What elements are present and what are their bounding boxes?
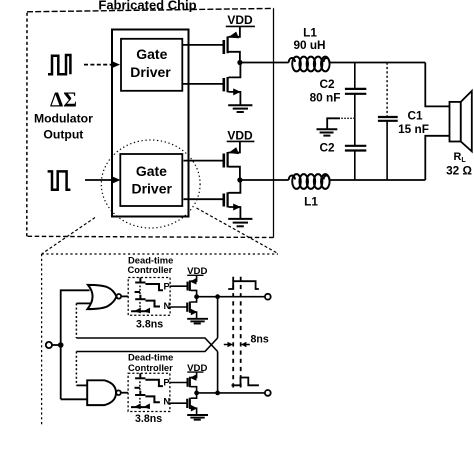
svg-text:8ns: 8ns xyxy=(251,334,269,346)
wire: feedback line 1 (to NOR B) with crossover diagonal xyxy=(76,338,217,352)
svg-text:Controller: Controller xyxy=(128,362,173,373)
wire: feedback line 2 (to NAND A) with crossover diagonal xyxy=(76,338,217,352)
wire: feedback from node D down to crossover xyxy=(217,297,219,338)
DT2 interior delay elements xyxy=(131,373,163,409)
inductor L1 (bottom) xyxy=(289,174,330,189)
svg-text:N: N xyxy=(164,300,171,311)
gate driver U1 xyxy=(121,39,182,91)
svg-text:P: P xyxy=(163,376,169,387)
node B: half-bridge 2 output xyxy=(237,177,288,182)
svg-text:Gate: Gate xyxy=(136,46,167,62)
label: Delta-Sigma Modulator Output xyxy=(34,88,93,142)
wire: right vertical to speaker top xyxy=(425,63,449,107)
svg-text:P: P xyxy=(164,281,170,292)
svg-text:80 nF: 80 nF xyxy=(310,91,341,105)
delta-sigma output waveform 2 (square wave) xyxy=(48,171,71,189)
transistor M6 (NMOS detail 1) xyxy=(187,297,197,319)
dead-time controller DT1 box xyxy=(128,278,170,316)
svg-text:32 Ω: 32 Ω xyxy=(446,164,472,178)
wire: input bus vertical xyxy=(61,290,90,399)
svg-text:Driver: Driver xyxy=(131,180,172,196)
svg-text:90 uH: 90 uH xyxy=(293,38,325,52)
speaker load RL xyxy=(450,91,472,151)
svg-text:VDD: VDD xyxy=(227,13,253,27)
label: Dead-time Controller (DT2) xyxy=(128,352,173,373)
output terminal 1 (detail) xyxy=(265,294,271,300)
wire: crossover to node E vertical xyxy=(217,352,219,393)
ground: M4 source xyxy=(228,219,252,226)
wire: DT1 P to M5 gate xyxy=(170,285,187,287)
VDD supply (detail 1) xyxy=(187,266,207,277)
input terminal (detail) xyxy=(46,342,64,348)
node D: detail output junction 1 xyxy=(215,294,265,299)
wire: U2 to M3 gate xyxy=(184,160,223,162)
wire: NAND top input from feedback xyxy=(76,352,87,386)
svg-text:15 nF: 15 nF xyxy=(398,122,429,136)
wire: L1 top to right network xyxy=(329,62,425,64)
transistor M1 (PMOS high-side 1) xyxy=(224,26,240,62)
label: C2 80 nF (top) xyxy=(310,77,341,105)
inductor L1 (top) xyxy=(289,57,330,72)
8ns measure arrow left xyxy=(224,342,233,347)
svg-text:L1: L1 xyxy=(304,195,318,209)
capacitor C2 (bottom) xyxy=(345,146,366,180)
svg-text:Output: Output xyxy=(43,128,83,142)
capacitor C1 xyxy=(378,63,398,181)
output pulse waveform 1 xyxy=(228,281,259,289)
svg-text:Fabricated Chip: Fabricated Chip xyxy=(98,0,196,13)
transistor M5 (PMOS detail 1) xyxy=(188,275,197,296)
wire: input 2 arrow into gate driver U2 xyxy=(85,176,121,184)
label: Dead-time Controller (DT1) xyxy=(128,255,174,275)
svg-text:Gate: Gate xyxy=(136,163,167,179)
callout line right xyxy=(197,208,279,254)
svg-text:Controller: Controller xyxy=(128,264,173,275)
transistor M3 (PMOS high-side 2) xyxy=(224,141,240,180)
wire: U1 to M1 gate xyxy=(183,44,223,46)
output terminal 2 (detail) xyxy=(265,390,271,396)
8ns measure arrow right xyxy=(241,342,250,347)
svg-text:Modulator: Modulator xyxy=(34,112,93,126)
dead-time measure dashed line right xyxy=(240,277,242,390)
node C: detail half-bridge 1 drain junction xyxy=(194,294,217,299)
chip boundary dashed box (Fabricated Chip) xyxy=(27,8,274,237)
callout ellipse around gate driver U2 xyxy=(101,140,200,228)
wire: input 1 arrow into gate driver U1 xyxy=(84,61,120,69)
ground: C2 midpoint xyxy=(317,118,355,135)
wire: U1 to M2 gate xyxy=(183,83,223,85)
wire: DT2 P to M7 gate xyxy=(170,382,187,384)
DT1 interior delay elements xyxy=(131,278,163,314)
svg-text:VDD: VDD xyxy=(227,129,253,143)
VDD supply rail 2 xyxy=(227,129,255,143)
svg-text:N: N xyxy=(163,396,170,407)
svg-text:3.8ns: 3.8ns xyxy=(136,319,163,331)
gate driver U2 xyxy=(120,154,182,206)
svg-text:3.8ns: 3.8ns xyxy=(135,413,162,425)
node E: detail half-bridge 2 drain junction xyxy=(194,391,217,396)
delta-sigma output waveform 1 (square wave) xyxy=(48,55,70,74)
svg-text:Driver: Driver xyxy=(130,64,171,80)
wire: DT1 N to M6 gate xyxy=(170,306,187,308)
wire: NAND bottom input xyxy=(61,398,87,400)
svg-text:C2: C2 xyxy=(319,141,335,155)
ground: M2 source xyxy=(228,105,252,112)
output pulse waveform 2 xyxy=(232,378,259,386)
wire: L1 bottom to right network xyxy=(329,179,425,181)
node F: detail output junction 2 xyxy=(215,391,265,396)
dead-time measure dashed line left xyxy=(232,277,234,390)
transistor M2 (NMOS low-side 1) xyxy=(224,63,241,106)
capacitor C2 (top) xyxy=(345,63,366,146)
svg-text:C2: C2 xyxy=(319,77,335,91)
transistor M4 (NMOS low-side 2) xyxy=(224,180,241,219)
callout line left xyxy=(42,218,95,255)
svg-text:ΔΣ: ΔΣ xyxy=(50,88,77,112)
NAND gate U4 xyxy=(87,380,128,405)
ground: M6 source (detail 1) xyxy=(187,319,208,324)
transistor M8 (NMOS detail 2) xyxy=(187,393,197,415)
label: L1 90 uH (top) xyxy=(293,26,325,52)
gate driver container box xyxy=(112,30,189,217)
wire: NOR bottom input from feedback xyxy=(76,303,91,338)
transistor M7 (PMOS detail 2) xyxy=(188,372,197,393)
ground: M8 source (detail 2) xyxy=(187,415,208,420)
dead-time controller DT2 box xyxy=(128,373,170,411)
label: C1 15 nF xyxy=(398,109,429,137)
wire: U2 to M4 gate xyxy=(184,198,223,200)
detail callout dashed box xyxy=(42,254,278,426)
VDD supply (detail 2) xyxy=(187,363,207,374)
node A: half-bridge 1 output xyxy=(237,60,288,65)
VDD supply rail 1 xyxy=(226,13,255,27)
label: RL 32 ohm xyxy=(446,151,472,178)
svg-text:RL: RL xyxy=(454,151,467,164)
wire: DT2 N to M8 gate xyxy=(170,402,187,404)
svg-text:C1: C1 xyxy=(407,109,423,123)
NOR gate U3 xyxy=(87,285,128,309)
wire: speaker bottom to right vertical xyxy=(425,136,449,180)
